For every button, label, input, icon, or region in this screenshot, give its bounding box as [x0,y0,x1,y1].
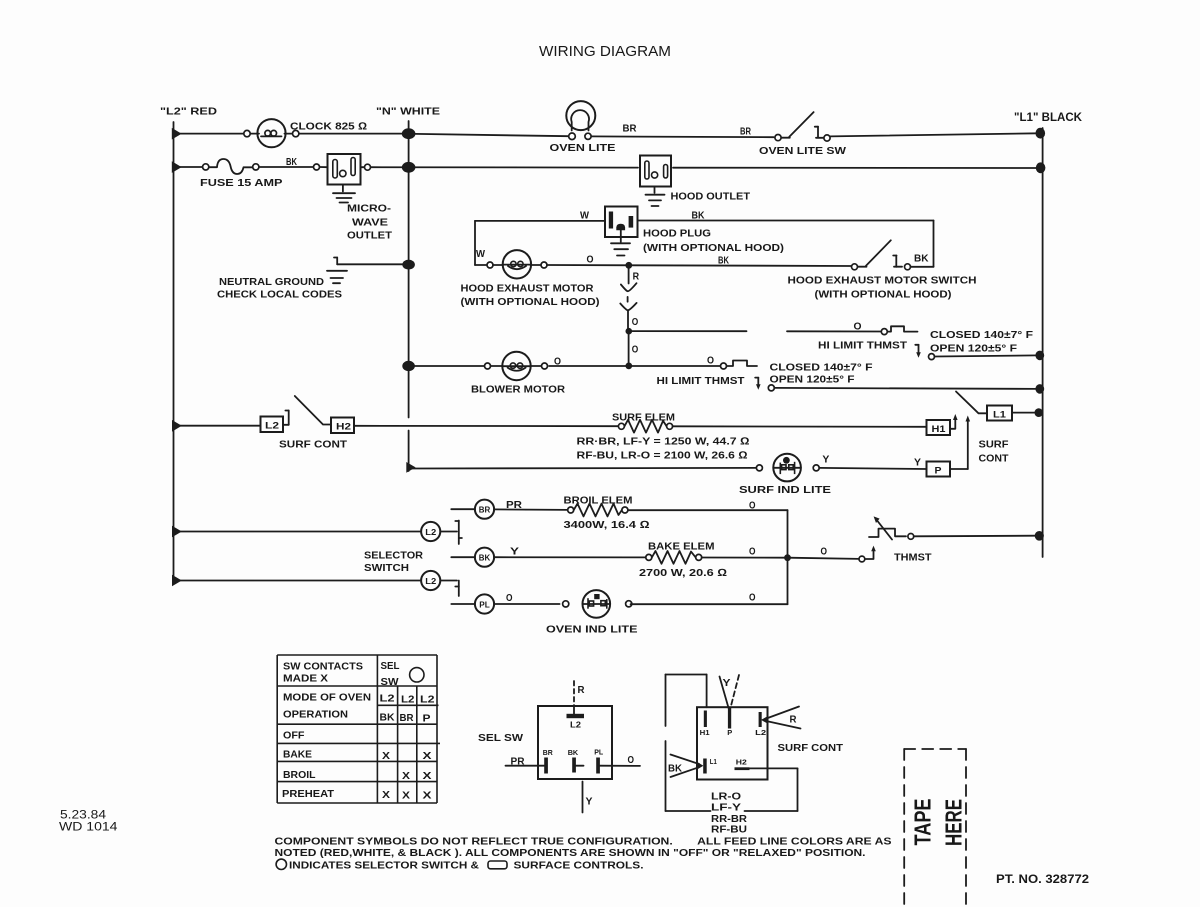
svg-text:H2: H2 [736,757,747,766]
svg-text:HOOD EXHAUST MOTOR SWITCH: HOOD EXHAUST MOTOR SWITCH [788,275,977,287]
svg-text:CLOSED 140±7° F: CLOSED 140±7° F [770,362,874,374]
svg-text:R: R [633,270,640,282]
svg-text:X: X [423,750,432,762]
svg-text:RF-BU, LR-O = 2100 W, 26.6 Ω: RF-BU, LR-O = 2100 W, 26.6 Ω [577,450,748,462]
svg-text:HI LIMIT THMST: HI LIMIT THMST [657,375,746,387]
svg-text:THMST: THMST [894,552,932,564]
svg-text:X: X [402,770,410,782]
svg-text:"L1" BLACK: "L1" BLACK [1014,112,1083,124]
svg-text:HOOD PLUG: HOOD PLUG [643,228,711,240]
svg-text:RR·BR, LF-Y = 1250 W, 44.7 Ω: RR·BR, LF-Y = 1250 W, 44.7 Ω [577,436,750,448]
svg-text:MODE OF OVEN: MODE OF OVEN [283,692,371,704]
svg-text:BROIL: BROIL [283,769,316,781]
svg-text:BR: BR [479,506,491,515]
svg-text:COMPONENT SYMBOLS DO NOT REFLE: COMPONENT SYMBOLS DO NOT REFLECT TRUE CO… [275,836,892,848]
svg-text:3400W, 16.4 Ω: 3400W, 16.4 Ω [564,519,650,531]
svg-text:L2: L2 [401,694,415,706]
svg-text:BR: BR [623,123,637,135]
svg-text:L2: L2 [265,421,279,431]
svg-text:SELECTOR: SELECTOR [364,550,423,562]
svg-text:BK: BK [380,712,395,724]
svg-text:Y: Y [822,454,829,466]
svg-text:"N" WHITE: "N" WHITE [376,106,440,118]
svg-text:MICRO-: MICRO- [347,203,392,215]
svg-text:BK: BK [718,255,729,267]
svg-text:O: O [749,546,756,558]
svg-text:SURF: SURF [979,439,1010,451]
svg-text:Y: Y [914,457,921,469]
svg-text:WIRING DIAGRAM: WIRING DIAGRAM [539,44,671,60]
svg-text:2700 W, 20.6 Ω: 2700 W, 20.6 Ω [639,567,727,579]
svg-text:SW: SW [381,676,399,688]
svg-text:O: O [707,355,714,367]
svg-text:OPERATION: OPERATION [283,709,348,721]
svg-text:P: P [727,728,732,737]
svg-text:CLOCK 825 Ω: CLOCK 825 Ω [290,121,367,133]
svg-text:P: P [423,713,431,725]
svg-text:MADE X: MADE X [283,673,328,685]
svg-text:L2: L2 [425,528,437,537]
svg-text:PT. NO. 328772: PT. NO. 328772 [996,874,1089,886]
svg-text:H1: H1 [932,424,946,434]
svg-text:(WITH OPTIONAL HOOD): (WITH OPTIONAL HOOD) [461,296,600,308]
svg-text:HOOD OUTLET: HOOD OUTLET [671,191,751,203]
svg-text:X: X [382,750,390,762]
svg-text:Y: Y [723,677,731,689]
svg-text:Y: Y [510,546,519,558]
svg-text:RF-BU: RF-BU [711,824,747,836]
svg-text:CHECK LOCAL CODES: CHECK LOCAL CODES [217,289,342,301]
svg-text:O: O [554,356,561,368]
svg-text:O: O [854,321,862,333]
svg-text:O: O [628,754,635,766]
svg-text:(WITH OPTIONAL HOOD): (WITH OPTIONAL HOOD) [643,242,784,254]
svg-text:R: R [790,714,797,726]
svg-text:SURFACE CONTROLS.: SURFACE CONTROLS. [514,860,644,872]
svg-text:CLOSED 140±7° F: CLOSED 140±7° F [930,329,1034,341]
svg-text:OVEN LITE: OVEN LITE [550,142,616,154]
svg-text:PL: PL [594,747,603,756]
svg-text:O: O [587,254,594,266]
svg-text:BK: BK [568,748,579,757]
svg-text:SW CONTACTS: SW CONTACTS [283,661,363,673]
svg-text:BR: BR [543,748,554,757]
svg-text:HI LIMIT THMST: HI LIMIT THMST [818,340,908,352]
svg-text:OPEN 120±5° F: OPEN 120±5° F [770,374,856,386]
svg-text:HOOD EXHAUST MOTOR: HOOD EXHAUST MOTOR [461,283,594,295]
svg-text:"L2" RED: "L2" RED [160,106,218,118]
svg-text:L2: L2 [755,728,766,737]
svg-text:BAKE ELEM: BAKE ELEM [648,541,715,553]
svg-text:SEL SW: SEL SW [478,732,523,744]
svg-text:OUTLET: OUTLET [347,230,393,242]
svg-text:BK: BK [692,210,705,222]
svg-text:NOTED (RED,WHITE, & BLACK ).: NOTED (RED,WHITE, & BLACK ). ALL COMPONE… [275,847,866,859]
svg-text:OFF: OFF [283,730,305,742]
svg-text:OVEN IND LITE: OVEN IND LITE [546,624,638,636]
svg-text:PR: PR [506,499,522,511]
svg-text:BR: BR [400,712,414,724]
svg-text:O: O [632,344,639,356]
svg-text:INDICATES SELECTOR SWITCH &: INDICATES SELECTOR SWITCH & [289,860,479,872]
svg-text:SEL: SEL [381,660,401,672]
svg-text:BLOWER MOTOR: BLOWER MOTOR [471,384,565,396]
svg-text:O: O [632,316,639,328]
svg-text:H1: H1 [700,728,710,737]
svg-text:P: P [935,465,942,475]
svg-text:O: O [506,592,513,604]
svg-text:(WITH OPTIONAL HOOD): (WITH OPTIONAL HOOD) [815,289,952,301]
svg-text:SURF ELEM: SURF ELEM [612,412,675,424]
svg-text:SURF CONT: SURF CONT [778,742,844,754]
svg-text:HERE: HERE [941,799,967,846]
svg-text:H2: H2 [336,422,351,432]
svg-text:PREHEAT: PREHEAT [282,788,335,800]
svg-text:X: X [423,770,432,782]
svg-text:W: W [476,248,485,260]
svg-text:BROIL ELEM: BROIL ELEM [564,495,633,507]
svg-text:BK: BK [668,763,682,775]
svg-text:O: O [749,500,756,512]
svg-text:X: X [382,789,390,801]
svg-text:TAPE: TAPE [910,799,936,846]
svg-text:L2: L2 [425,577,437,586]
svg-text:R: R [578,684,585,696]
svg-text:BAKE: BAKE [283,749,312,761]
svg-text:WAVE: WAVE [352,217,388,229]
svg-text:NEUTRAL GROUND: NEUTRAL GROUND [219,276,324,288]
svg-text:BR: BR [740,126,751,138]
svg-text:L2: L2 [570,721,582,730]
svg-text:CONT: CONT [979,453,1010,465]
svg-text:LF-Y: LF-Y [711,802,741,814]
svg-text:PL: PL [479,600,490,609]
svg-text:L2: L2 [420,694,435,706]
svg-text:SURF CONT: SURF CONT [279,439,348,451]
svg-text:O: O [749,592,756,604]
svg-text:FUSE 15 AMP: FUSE 15 AMP [200,177,283,189]
svg-text:X: X [402,790,410,802]
svg-text:OPEN 120±5° F: OPEN 120±5° F [930,343,1018,355]
svg-text:L1: L1 [710,757,717,766]
svg-text:SURF IND LITE: SURF IND LITE [739,484,831,496]
svg-text:BK: BK [479,554,491,563]
svg-text:W: W [580,210,589,222]
svg-text:L2: L2 [380,693,395,705]
svg-text:SWITCH: SWITCH [364,562,409,574]
svg-text:BK: BK [914,253,929,265]
svg-text:X: X [423,790,432,802]
svg-text:OVEN LITE SW: OVEN LITE SW [759,145,846,157]
svg-text:Y: Y [586,796,593,808]
svg-text:WD 1014: WD 1014 [59,820,118,834]
svg-text:L1: L1 [993,409,1006,419]
svg-text:O: O [821,546,828,558]
svg-text:BK: BK [286,156,297,168]
